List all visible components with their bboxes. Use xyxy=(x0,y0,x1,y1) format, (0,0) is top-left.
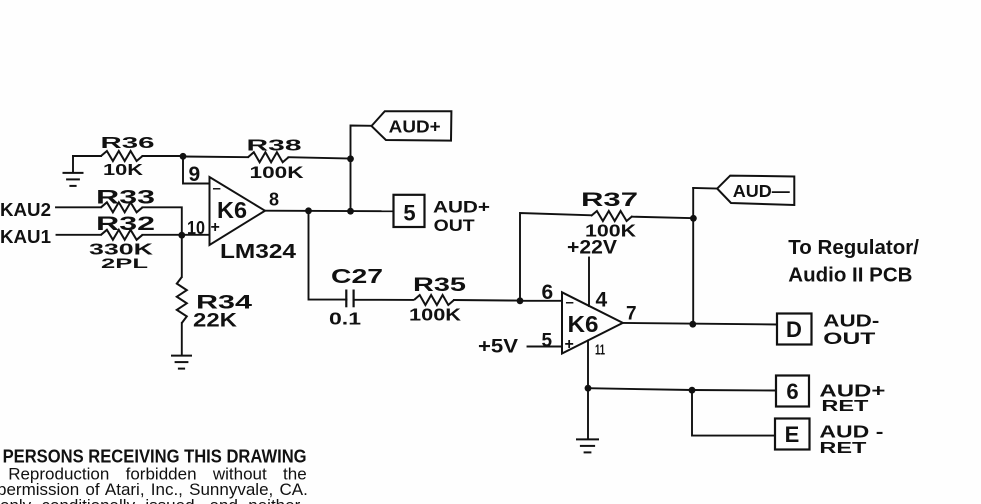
svg-text:Audio II PCB: Audio II PCB xyxy=(788,263,912,286)
pin 5 label xyxy=(542,330,553,351)
resistor R37 100K xyxy=(581,189,693,240)
wire R33 to node N3 xyxy=(143,207,182,235)
label AUD- OUT xyxy=(823,310,879,348)
note: To Regulator/Audio II PCB xyxy=(788,236,919,286)
wire op-amp U1 output xyxy=(265,210,394,213)
svg-text:OUT: OUT xyxy=(434,217,475,235)
svg-text:KAU1: KAU1 xyxy=(0,227,51,247)
svg-text:AUD+: AUD+ xyxy=(389,117,441,137)
svg-text:5: 5 xyxy=(403,201,415,226)
node N10 (RET bus/terminal E branch) xyxy=(689,387,696,394)
wire KAU1 to R32 xyxy=(57,234,102,236)
node N1 (R36/R38/pin9 junction) xyxy=(180,153,187,160)
svg-text:–: – xyxy=(566,294,574,311)
svg-text:K6: K6 xyxy=(568,311,599,337)
ground symbol (input bias, left of R36) xyxy=(63,156,84,186)
terminal D xyxy=(777,314,812,345)
svg-text:11: 11 xyxy=(595,342,605,359)
svg-text:+22V: +22V xyxy=(567,237,617,259)
svg-text:2PL: 2PL xyxy=(101,255,149,271)
svg-text:To Regulator/: To Regulator/ xyxy=(788,236,919,259)
terminal 6 xyxy=(776,376,809,407)
svg-text:6: 6 xyxy=(542,281,554,304)
wire node N10 to terminal E xyxy=(692,390,775,435)
svg-text:8: 8 xyxy=(269,190,279,210)
svg-text:PERSONS RECEIVING THIS DRAWING: PERSONS RECEIVING THIS DRAWING xyxy=(3,446,307,467)
svg-text:R33: R33 xyxy=(96,188,155,209)
resistor R33 xyxy=(96,188,155,213)
resistor R36 10K xyxy=(101,135,155,179)
wire ground to R36 xyxy=(73,155,101,157)
wire R35 to node N6 xyxy=(454,299,520,302)
svg-text:AUD -: AUD - xyxy=(819,422,883,442)
op-amp U1 LM324 (K6) xyxy=(210,177,298,263)
svg-text:7: 7 xyxy=(626,304,637,325)
svg-text:AUD—: AUD— xyxy=(733,181,791,201)
power +5V to pin 5 xyxy=(478,335,562,357)
svg-text:LM324: LM324 xyxy=(220,241,297,263)
wire C27 to R35 xyxy=(354,299,413,301)
resistor R34 22K xyxy=(177,235,252,355)
wire op-amp U2 output xyxy=(623,323,777,325)
ground symbol (below op-amp U2) xyxy=(576,439,599,452)
node N8 (output/AUD- riser junction) xyxy=(689,321,696,328)
svg-text:10K: 10K xyxy=(103,162,144,179)
node N2 (R38/AUD+ riser junction) xyxy=(347,155,354,162)
net label KAU2 xyxy=(0,200,51,220)
svg-text:100K: 100K xyxy=(250,163,305,182)
svg-text:9: 9 xyxy=(189,163,201,186)
svg-text:R38: R38 xyxy=(247,137,302,154)
wire feedback node N6 up to R37 xyxy=(520,213,591,301)
note: legal text block xyxy=(0,446,308,504)
terminal 5 xyxy=(394,195,425,227)
node N5 (output to AUD+ riser) xyxy=(347,208,354,215)
pin 11 label xyxy=(595,342,605,359)
svg-text:R32: R32 xyxy=(96,214,155,235)
pin 8 label xyxy=(269,190,279,210)
pin 9 label xyxy=(189,163,201,186)
node N6 (pin 6 junction) xyxy=(517,297,524,304)
svg-text:6: 6 xyxy=(786,379,798,404)
resistor R38 100K xyxy=(183,137,351,182)
svg-text:4: 4 xyxy=(596,289,608,312)
wire RET bus to terminal 6 xyxy=(588,388,776,390)
svg-text:RET: RET xyxy=(821,398,868,415)
wire pin 11 to ground xyxy=(587,341,589,440)
svg-text:100K: 100K xyxy=(409,305,461,325)
pin 6 label xyxy=(542,281,554,304)
node N3 (pin 10 junction) xyxy=(178,232,185,239)
terminal E xyxy=(775,419,810,450)
svg-text:OUT: OUT xyxy=(823,329,876,348)
wire KAU2 to R33 xyxy=(56,206,101,208)
svg-text:AUD-: AUD- xyxy=(823,310,879,330)
flag AUD+ xyxy=(372,111,452,140)
svg-text:0.1: 0.1 xyxy=(329,309,361,329)
wire node N6 to op-amp pin 6 xyxy=(520,300,562,302)
svg-text:K6: K6 xyxy=(217,197,247,223)
flag AUD- xyxy=(717,176,794,205)
svg-text:only conditionally issued, and: only conditionally issued, and neither xyxy=(0,496,301,504)
wire R36 to node N1 xyxy=(143,155,184,157)
wire node N4 to C27 xyxy=(309,211,347,300)
pin 10 label xyxy=(187,218,205,238)
pin 4 label xyxy=(596,289,608,312)
svg-text:10: 10 xyxy=(187,218,205,238)
svg-text:D: D xyxy=(786,317,802,342)
svg-text:+: + xyxy=(565,336,574,353)
resistor R32 330K 2PL xyxy=(89,214,155,271)
capacitor C27 0.1 xyxy=(329,266,383,328)
svg-text:KAU2: KAU2 xyxy=(0,200,51,220)
svg-text:+5V: +5V xyxy=(478,335,518,357)
ground symbol (below R34) xyxy=(171,356,192,369)
resistor R35 100K xyxy=(409,274,466,325)
svg-text:AUD+: AUD+ xyxy=(433,198,490,216)
node N4 (output to C27 branch) xyxy=(305,207,312,214)
svg-text:E: E xyxy=(785,422,800,447)
label AUD+ OUT xyxy=(433,198,490,235)
wire node N3 to op-amp pin 10 xyxy=(143,234,210,236)
node N9 (pin 11/RET bus junction) xyxy=(585,385,592,392)
power +22V to pin 4 xyxy=(567,237,617,306)
node N7 (R37/AUD- riser junction) xyxy=(690,215,697,222)
svg-text:R37: R37 xyxy=(581,189,638,211)
svg-text:5: 5 xyxy=(542,330,553,351)
svg-text:C27: C27 xyxy=(331,266,383,288)
label AUD- RET xyxy=(819,422,883,458)
svg-text:22K: 22K xyxy=(193,310,237,332)
net label KAU1 xyxy=(0,227,51,247)
wire node N5 to AUD+ flag xyxy=(351,126,372,212)
svg-text:RET: RET xyxy=(819,440,866,457)
pin 7 label xyxy=(626,304,637,325)
label AUD+ RET xyxy=(819,381,885,415)
svg-text:R35: R35 xyxy=(413,274,466,296)
svg-text:–: – xyxy=(213,180,221,197)
op-amp U2 (K6) xyxy=(562,292,623,353)
svg-text:R36: R36 xyxy=(101,135,155,152)
wire AUD- riser xyxy=(693,188,717,324)
wire node N1 to op-amp pin 9 xyxy=(183,156,210,184)
